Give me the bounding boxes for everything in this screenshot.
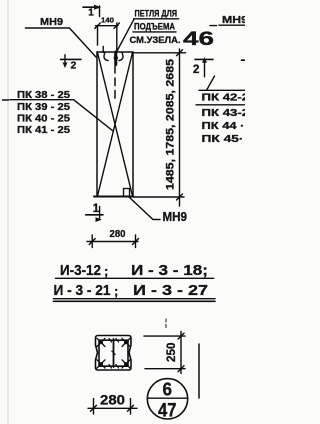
diagonal brace 1 bbox=[98, 53, 133, 197]
leader MH9 bottom bbox=[129, 197, 161, 220]
svg-text:1: 1 bbox=[93, 203, 100, 215]
svg-text:И-3-12: И-3-12 bbox=[60, 262, 101, 279]
dimension 140 bbox=[95, 16, 120, 53]
underline petlya line2 bbox=[133, 31, 176, 33]
svg-text:1: 1 bbox=[88, 7, 94, 18]
svg-text:И - 3 - 21: И - 3 - 21 bbox=[54, 282, 111, 299]
leader PK38 to column bbox=[74, 100, 113, 131]
svg-text:280: 280 bbox=[110, 229, 126, 240]
svg-text:ПОДЪЕМА: ПОДЪЕМА bbox=[134, 22, 175, 32]
svg-text:;: ; bbox=[114, 284, 118, 299]
diagonal brace 2 bbox=[98, 53, 133, 197]
svg-text:СМ.УЗЕЛА.: СМ.УЗЕЛА. bbox=[130, 35, 181, 45]
svg-text:МН9: МН9 bbox=[163, 209, 188, 224]
svg-text:ПК 44 ·: ПК 44 · bbox=[202, 121, 245, 132]
cross-section outer bbox=[96, 336, 132, 371]
dash left of PK38 bbox=[3, 99, 9, 101]
labels PK right bbox=[202, 92, 258, 145]
stirrup edge ticks bbox=[109, 339, 119, 369]
svg-text:280: 280 bbox=[100, 393, 125, 408]
underline PK42 bbox=[196, 104, 245, 106]
detail circle 6/47 bbox=[147, 379, 188, 422]
svg-text:И - 3 - 27: И - 3 - 27 bbox=[133, 282, 208, 299]
overline PK42 bbox=[199, 89, 245, 91]
svg-text:ПК 45·: ПК 45· bbox=[202, 134, 244, 145]
dimension 280 upper bbox=[87, 229, 139, 248]
svg-text:1485, 1785, 2085, 2685: 1485, 1785, 2085, 2685 bbox=[165, 59, 177, 190]
svg-text:ПК 40 - 25: ПК 40 - 25 bbox=[17, 113, 70, 124]
underline petlya line1 bbox=[134, 18, 179, 20]
dimension 280 lower bbox=[88, 393, 137, 414]
leader petlya to loop bbox=[117, 19, 134, 51]
lifting loop bbox=[104, 52, 123, 65]
svg-text:250: 250 bbox=[166, 343, 178, 363]
svg-text:МН9: МН9 bbox=[40, 16, 63, 28]
section mark 2 left bbox=[61, 55, 82, 72]
text block PETLYA bbox=[130, 8, 215, 49]
shelf MH9 top-right bbox=[210, 25, 217, 27]
label MH9 bottom bbox=[163, 209, 188, 224]
cross-section middle bar bbox=[113, 339, 115, 367]
rebar corner ticks bbox=[97, 338, 130, 368]
column bottom edge thick bbox=[94, 196, 134, 198]
svg-text:;: ; bbox=[104, 264, 108, 279]
svg-text:2: 2 bbox=[71, 59, 77, 71]
centerline dashes above section bbox=[165, 319, 167, 328]
column outline bbox=[97, 52, 133, 197]
underline marks line 1 bbox=[55, 277, 213, 279]
svg-text:ПК 42-25: ПК 42-25 bbox=[202, 92, 246, 103]
svg-text:ПК 39 - 25: ПК 39 - 25 bbox=[17, 102, 70, 113]
svg-text:МН9: МН9 bbox=[222, 14, 245, 26]
section mark 1 top bbox=[83, 5, 101, 19]
column centerline dashed bbox=[114, 53, 116, 99]
svg-text:46: 46 bbox=[183, 29, 214, 50]
leader MH9 top-left shelf bbox=[25, 28, 96, 57]
underline PK38 bbox=[10, 99, 74, 101]
left fold line bbox=[7, 0, 9, 424]
svg-text:6: 6 bbox=[163, 380, 173, 400]
tick at right edge bbox=[242, 59, 246, 61]
section mark 1 bottom bbox=[86, 203, 103, 222]
svg-text:ПЕТЛЯ ДЛЯ: ПЕТЛЯ ДЛЯ bbox=[135, 8, 178, 18]
vertical dimension 1485-2685 bbox=[134, 49, 186, 206]
marks list line 2 bbox=[54, 282, 209, 299]
svg-text:47: 47 bbox=[158, 399, 177, 421]
frame line right bbox=[198, 344, 200, 398]
leader tick above PK42 bbox=[207, 76, 215, 90]
svg-text:И - 3 - 18;: И - 3 - 18; bbox=[131, 262, 208, 279]
section mark 2 right bbox=[193, 57, 213, 76]
svg-text:ПК 43-25: ПК 43-25 bbox=[202, 108, 246, 119]
label MH9 top-right bbox=[222, 14, 248, 26]
embed MH9 square bottom-right of column bbox=[124, 189, 130, 197]
dimension 250 bbox=[144, 332, 185, 374]
svg-text:ПК 41 - 25: ПК 41 - 25 bbox=[17, 125, 70, 136]
underline marks line 2 (thick) bbox=[53, 298, 215, 300]
labels PK left bbox=[17, 90, 70, 136]
rebar dots in corners bbox=[100, 341, 128, 366]
marks list line 1 bbox=[60, 262, 208, 279]
cross-section stirrup bbox=[99, 340, 128, 366]
svg-text:140: 140 bbox=[101, 16, 114, 25]
label MH9 top-left bbox=[40, 16, 63, 28]
svg-text:2: 2 bbox=[193, 64, 199, 76]
